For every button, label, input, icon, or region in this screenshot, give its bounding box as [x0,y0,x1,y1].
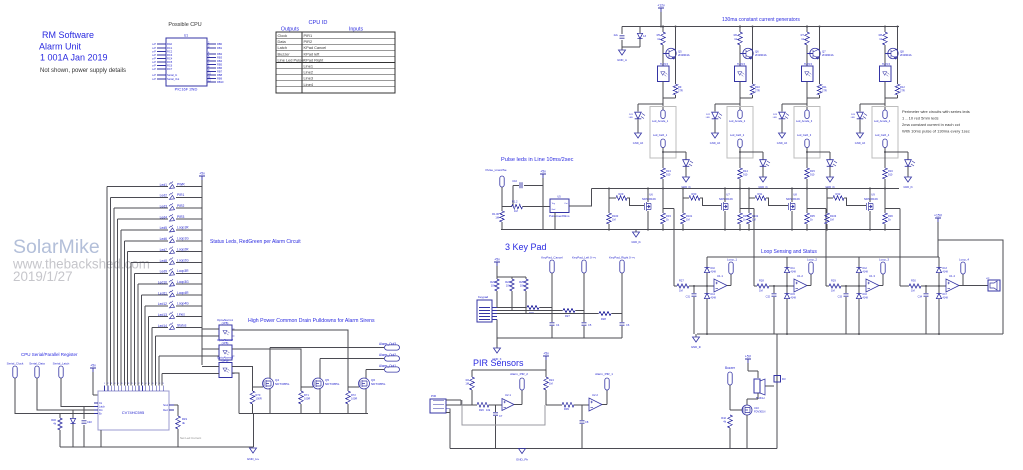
connector keypad block [477,295,497,322]
resistor R11 27R [807,82,827,99]
svg-text:100R: 100R [304,397,310,401]
resistor R10 27R [740,82,760,99]
resistor R35 1k driver 3 [805,213,816,230]
LED channel 3 spare [773,104,807,133]
svg-text:3 Key Pad: 3 Key Pad [505,242,547,252]
svg-text:910: 910 [810,173,815,177]
svg-text:NDS0610K: NDS0610K [719,197,733,201]
resistor R27 1M loop [674,279,689,293]
svg-text:NDT3055L: NDT3055L [275,382,290,386]
svg-text:Led11: Led11 [158,291,167,295]
wire loop feed 4 [899,209,901,287]
svg-text:R31: R31 [758,192,763,196]
svg-text:Line1: Line1 [304,64,314,69]
svg-text:1M: 1M [911,289,915,293]
gray group box channel 1 [650,107,676,159]
svg-text:U1.3: U1.3 [869,274,875,278]
capacitor C10 [512,179,543,207]
wire pulse tag down [501,187,503,211]
svg-text:RB6: RB6 [217,66,223,70]
svg-text:1M: 1M [686,218,690,222]
svg-text:C34: C34 [918,296,923,299]
LED Led12 row [145,301,202,386]
svg-text:RC2: RC2 [167,50,173,54]
resistor R2 1M pir [465,370,474,405]
svg-text:R1.2: R1.2 [512,200,518,204]
svg-text:4148: 4148 [711,297,717,300]
svg-text:KPad Right: KPad Right [304,57,325,62]
resistor R29 1M loop [826,279,841,293]
svg-text:R101: R101 [686,214,693,218]
svg-text:R100: R100 [612,214,619,218]
svg-text:+15V: +15V [934,214,943,218]
svg-text:Set Led Current: Set Led Current [180,436,201,440]
svg-text:Sout: Sout [163,404,168,407]
resistor R29 gate series driver 1 [609,192,644,206]
svg-text:C4: C4 [556,323,560,327]
svg-text:Pulse leds in Line 10ms/2sec: Pulse leds in Line 10ms/2sec [501,157,574,163]
diode D13 1N4148 up [936,257,948,286]
diode D20 zener [622,27,646,48]
svg-text:R24: R24 [505,280,510,284]
wire loop feed 3 [825,209,827,287]
resistor R105 4k7 [492,211,504,230]
op-amp U1.3 loop comparator [866,274,879,292]
resistor R102 1M gate pulldown driver 3 [747,189,759,230]
svg-text:RB4: RB4 [217,59,223,63]
LED Led4 row [117,214,202,385]
svg-text:GND_th: GND_th [691,345,702,349]
svg-text:FDV301N: FDV301N [754,410,766,414]
svg-text:1M: 1M [830,218,834,222]
svg-text:Loop2G: Loop2G [177,258,189,262]
svg-text:GND_Ah: GND_Ah [777,141,788,145]
svg-text:Loop4G: Loop4G [177,302,189,306]
wire opto3 emitter pins [232,373,239,414]
resistor R#1 set led current [174,405,201,447]
svg-text:R23: R23 [490,280,495,284]
wire pulse bottom bus [501,229,555,231]
svg-text:R28: R28 [601,317,606,321]
resistor R9 27R [663,82,683,99]
svg-text:U2.1: U2.1 [505,393,511,397]
resistor R32 gate series driver 4 [827,192,866,206]
op-amp U2.2 pir2 [589,393,602,411]
wire opto1 in [202,328,219,330]
connector Loop_3 [879,258,889,286]
svg-text:R9: R9 [678,85,682,89]
svg-text:GND_Ah: GND_Ah [855,141,866,145]
transistor Q1 NDT3055L [253,348,385,414]
svg-text:R29: R29 [619,192,624,196]
connector Alarm_Out2 [379,353,400,361]
title block text [39,30,126,74]
ground GND_Ah channel 1 [635,133,642,138]
wire top rail [622,26,899,28]
svg-text:Serial_Out: Serial_Out [167,77,180,81]
svg-text:NDS0610K: NDS0610K [786,197,800,201]
svg-text:LED: LED [773,117,778,119]
ground GND_th channel 3 [827,177,834,182]
svg-text:RB10: RB10 [217,80,224,84]
wire mid rail [592,188,899,190]
diode D14 1N4148 down [704,285,716,335]
svg-text:Possible CPU: Possible CPU [168,22,201,28]
svg-text:4148: 4148 [711,271,717,274]
svg-text:1M: 1M [679,289,683,293]
svg-text:1M: 1M [549,382,553,386]
svg-text:10k: 10k [491,284,496,288]
wire loop top rail [707,256,939,258]
svg-text:R13: R13 [666,169,671,173]
svg-text:NDS0610K: NDS0610K [864,197,878,201]
capacitor C#2 [82,407,93,448]
opto-isolator OptoAlarm1 [217,318,235,340]
svg-text:Loop3R: Loop3R [177,269,189,273]
svg-text:Led4: Led4 [160,215,168,219]
svg-text:2N2904A: 2N2904A [678,53,690,57]
ground GND_kp [493,320,502,362]
wire pir top [545,360,547,377]
diode D16 1N4148 down [856,285,868,335]
IC U2 74HC595 register [94,383,174,430]
svg-text:RC3: RC3 [167,53,173,57]
svg-text:Buzzer: Buzzer [278,51,291,56]
svg-text:PIR2: PIR2 [304,39,313,44]
transistor Q8 2N2904A [885,27,912,85]
resistor R70 100R gate pulldown [250,391,262,414]
connector PIR block [430,394,450,413]
svg-text:Led9: Led9 [160,270,168,274]
diode D17 1N4148 down [936,285,948,335]
wire channel 3 to anode [806,98,808,110]
capacitor C8 pir2 [580,405,589,449]
wire channel 2 to anode [739,98,741,110]
wire +5v to register [92,372,94,395]
opto-isolator OptoAlarm2 [217,338,235,360]
svg-text:PIR1: PIR1 [304,33,313,38]
svg-text:PIR2: PIR2 [177,204,184,208]
transistor U10 FDV301N buzzer [730,393,766,449]
resistor R16 910 [883,168,894,189]
resistor R31 gate series driver 3 [749,192,788,206]
svg-text:4148: 4148 [791,271,797,274]
LED line monitor channel 3 [827,152,837,177]
svg-text:Loop3G: Loop3G [177,280,189,284]
svg-text:U1: U1 [184,34,188,38]
svg-text:Led10: Led10 [158,280,167,284]
LED Led10 row [138,279,202,385]
svg-text:o-P: o-P [152,73,156,77]
LED line monitor channel 1 [683,152,693,177]
resistor R24 1M pir2 [544,377,555,405]
wire serial data [37,378,94,410]
svg-text:Alarm_PIR_2: Alarm_PIR_2 [510,372,528,376]
svg-text:GND_Ph: GND_Ph [516,458,528,462]
LED Led13 row [148,312,202,386]
CPU ID table [276,20,395,93]
svg-text:+5V: +5V [745,355,752,359]
svg-text:RC6: RC6 [167,64,173,68]
svg-text:2N2904A: 2N2904A [755,53,767,57]
svg-text:(1PB): (1PB) [222,358,229,362]
capacitor C31 loop [686,286,697,334]
wire ground rail left [60,446,254,448]
svg-text:Out: Out [564,202,568,205]
svg-text:Trig: Trig [552,203,555,205]
svg-text:CPU Serial/Parallel Register: CPU Serial/Parallel Register [21,352,78,357]
svg-text:1M: 1M [514,209,518,213]
svg-text:RC1: RC1 [167,46,173,50]
svg-text:Alarm_Out1: Alarm_Out1 [379,364,396,368]
resistor R15 910 [805,168,816,189]
svg-text:LED: LED [706,117,711,119]
svg-text:Line Led Pulser: Line Led Pulser [278,57,306,62]
gray group box channel 2 [727,107,753,159]
svg-text:TLP4.5: TLP4.5 [737,63,746,66]
transistor Q6 2N2904A [740,27,767,85]
svg-text:U5: U5 [557,195,561,199]
svg-text:GND_Ah: GND_Ah [710,141,721,145]
connector Alarm_PIR_1 [595,372,613,405]
svg-text:Loop_1: Loop_1 [727,258,737,262]
wire loop node 4 [921,285,946,287]
ground GND_H+ [250,448,257,453]
svg-text:PulseGen80ms: PulseGen80ms [549,214,570,218]
gray feedback wires pir [462,400,545,425]
wire right frame [938,240,1003,334]
svg-text:C33: C33 [838,296,843,299]
svg-text:(1PB): (1PB) [222,341,229,345]
svg-text:RB1: RB1 [217,46,223,50]
op-amp U1.2 loop comparator [794,274,807,292]
svg-text:R28: R28 [759,279,764,283]
svg-text:1M: 1M [752,218,756,222]
svg-text:CV74HC595: CV74HC595 [122,410,145,415]
svg-text:27R: 27R [822,89,827,93]
svg-text:C#2: C#2 [87,420,92,424]
LED line monitor channel 2 [760,152,770,177]
svg-text:2N2904A: 2N2904A [822,53,834,57]
wire serial latch [61,378,94,407]
capacitor C6 keypad [620,314,630,339]
svg-text:o-P: o-P [152,64,156,68]
wire pulse ic ground pin [554,212,556,229]
svg-text:High Power Common Drain Pulldo: High Power Common Drain Pulldowns for Al… [248,318,375,324]
svg-text:R09: R09 [564,407,569,411]
svg-text:Line3: Line3 [304,76,314,81]
svg-text:+5v: +5v [494,258,500,262]
resistor R25 10k keypad [519,277,528,314]
svg-text:Serial_Latch: Serial_Latch [53,362,70,366]
wire loop node 1 [689,285,714,287]
svg-text:R36: R36 [888,214,893,218]
svg-text:Led5: Led5 [160,226,168,230]
connector Alarm_PIR_2 [510,372,528,405]
opto LED box channel 2 [735,63,747,82]
wire pulldown source rail [239,413,368,415]
wire register bottom pin [100,430,102,447]
LED Led1 row [107,182,202,386]
wire pir pin1 join [460,400,462,405]
svg-text:R71: R71 [304,393,309,397]
svg-text:+5v: +5v [543,352,549,356]
op-amp U1 CPU box [152,34,224,92]
svg-text:Alarm_Out2: Alarm_Out2 [379,353,396,357]
speaker BUZ1 [754,379,765,400]
svg-text:Led_Cath_3: Led_Cath_3 [797,133,812,137]
resistor R30 1M loop [900,279,921,293]
svg-text:Keypad: Keypad [478,295,489,299]
svg-text:Loop1R: Loop1R [177,226,189,230]
wire loop feed 1 [673,209,675,287]
svg-text:RB0: RB0 [217,42,223,46]
resistor R34 1k driver 2 [738,213,749,230]
svg-text:C32: C32 [766,296,771,299]
svg-text:PIR Sensors: PIR Sensors [473,358,524,368]
wire opto3 out to Q1 gate column [232,367,253,392]
svg-text:Led14: Led14 [158,324,167,328]
svg-text:910: 910 [888,173,893,177]
diode D15 1N4148 down [784,285,796,335]
opto-isolator OptoAlarm3 [217,355,235,377]
opto LED box channel 3 [802,63,814,82]
svg-text:2019/1/27: 2019/1/27 [13,269,73,284]
wire opto2 return to register [159,355,219,357]
svg-text:U7: U7 [726,193,730,197]
svg-text:R32: R32 [836,192,841,196]
connector Led_Anode_1 [652,110,669,123]
resistor R7 channel 3 [801,26,821,46]
svg-text:Led3: Led3 [160,205,168,209]
resistor R28 keypad row [599,311,622,321]
svg-text:1M: 1M [831,289,835,293]
diode D12 1N4148 up [856,257,868,286]
wire loop rail drop [776,334,778,449]
svg-text:R12: R12 [900,85,905,89]
transistor Q3 NDT3055L [348,370,386,414]
resistor R24 10k keypad [505,277,514,311]
svg-text:Alarm Unit: Alarm Unit [39,42,82,52]
svg-text:Line2: Line2 [304,70,314,75]
svg-text:Led1: Led1 [160,183,168,187]
svg-text:R29: R29 [831,279,836,283]
resistor R#2 [51,414,62,448]
gray group box channel 3 [794,107,820,159]
svg-text:R102: R102 [752,214,759,218]
svg-text:o-P: o-P [152,46,156,50]
ground GND_Ah channel 4 [857,133,864,138]
svg-text:R15: R15 [810,169,815,173]
svg-text:KPad left: KPad left [304,51,321,56]
svg-text:+12v: +12v [657,4,665,8]
diode D11 1N4148 up [784,257,796,286]
svg-text:U1.4: U1.4 [949,274,955,278]
resistor R23 10k keypad [490,277,499,308]
ground GND_th channel 2 [760,177,767,182]
svg-text:U1.2: U1.2 [797,274,803,278]
wire lower bus [555,229,900,231]
transistor U7 NDS0610K driver 2 [719,188,733,230]
wire keypad gnd bus [497,337,622,339]
wire channel 1 to anode [662,98,664,110]
gray group box channel 4 [872,107,898,159]
svg-text:1M: 1M [465,382,469,386]
svg-text:100R: 100R [256,397,262,401]
svg-text:R35: R35 [810,214,815,218]
wire opto3 in [202,366,219,368]
svg-text:NDT3055L: NDT3055L [325,382,340,386]
svg-text:R14: R14 [743,169,748,173]
wire cath down channel 2 [739,148,741,169]
svg-text:10k: 10k [506,284,511,288]
connector Serial_Latch [53,362,70,379]
connector Loop_4 [959,258,969,286]
svg-text:Led6: Led6 [160,237,168,241]
svg-text:Perimeter wire circuits with s: Perimeter wire circuits with series leds [902,109,970,114]
wire channel tap driver 4 [884,180,886,213]
svg-text:4148: 4148 [863,271,869,274]
svg-text:o-P: o-P [152,60,156,64]
svg-text:910: 910 [743,173,748,177]
wire cath down channel 1 [662,148,664,169]
wire keypad row 3 [497,313,599,315]
svg-text:R8: R8 [879,33,883,37]
resistor R8 channel 4 [879,26,899,46]
ground GND_ls [691,334,702,349]
svg-text:LED: LED [629,117,634,119]
svg-text:4148: 4148 [943,297,949,300]
svg-text:KeyPad_Cancel: KeyPad_Cancel [541,256,563,260]
wire opto2 in [202,348,219,350]
resistor R72 100R gate pulldown [346,391,358,414]
svg-text:RA0: RA0 [167,42,173,46]
resistor R100 1M gate pulldown driver 1 [607,189,619,230]
svg-text:R16: R16 [888,169,893,173]
wire +15V drop [937,222,939,257]
opto LED box channel 4 [880,63,892,82]
wire +5v pulse drop [542,178,544,230]
svg-text:Status: Status [177,323,187,327]
diode D3 buzzer [765,376,786,387]
svg-text:R26: R26 [479,408,484,412]
connector Serial_Data [29,362,45,379]
svg-text:Led_Anode_2: Led_Anode_2 [729,119,746,123]
connector Pulse_Line2Sec [485,168,506,187]
perimeter note text [902,109,970,134]
svg-text:GND_H+: GND_H+ [247,457,260,461]
svg-text:+5v: +5v [90,364,96,368]
wire keypad row 1 [497,307,527,309]
svg-text:o-P: o-P [152,57,156,61]
svg-text:Gnd: Gnd [552,209,556,211]
capacitor C5 keypad [582,311,592,339]
svg-text:U1.1: U1.1 [717,274,723,278]
capacitor C32 loop [766,286,777,334]
svg-text:o-P: o-P [152,53,156,57]
capacitor C20 22u [614,27,625,51]
resistor R13 910 [661,168,672,189]
svg-text:Loop1G: Loop1G [177,237,189,241]
resistor R26 10k pir [477,403,502,412]
resistor R14 910 [738,168,749,189]
transistor Q5 2N2904A [663,27,690,85]
resistor R36 1k driver 4 [883,213,894,230]
wire keypad row 2 [497,310,563,312]
svg-text:RB3: RB3 [217,56,223,60]
LED Led11 row [142,290,203,386]
capacitor C4 keypad [550,308,560,339]
